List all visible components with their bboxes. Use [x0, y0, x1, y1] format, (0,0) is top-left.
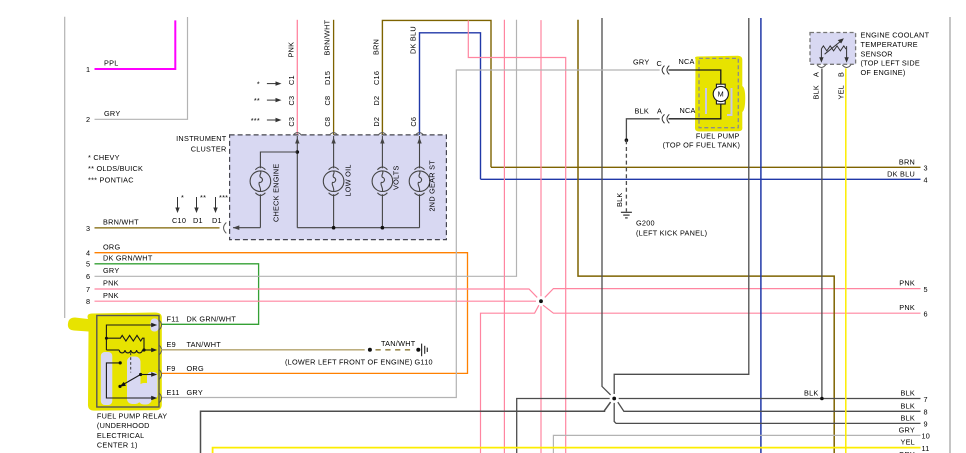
svg-text:BLK: BLK — [900, 402, 915, 411]
svg-text:6: 6 — [86, 272, 90, 281]
fuel pump dashed box — [699, 58, 738, 127]
svg-text:PNK: PNK — [899, 303, 915, 312]
svg-text:BLK: BLK — [804, 389, 819, 398]
connector (( at pump C — [662, 66, 669, 75]
svg-text:OF ENGINE): OF ENGINE) — [861, 68, 906, 77]
wire BLK pump to ground corner — [626, 119, 659, 140]
svg-text:INSTRUMENT: INSTRUMENT — [176, 134, 227, 143]
node PNK splice — [539, 299, 543, 303]
svg-text:2ND GEAR ST: 2ND GEAR ST — [428, 160, 437, 212]
node check-engine feed dot — [296, 150, 300, 154]
svg-text:5: 5 — [86, 260, 90, 269]
relay switch common stub — [106, 363, 155, 398]
label BLK A rotated — [812, 72, 821, 100]
svg-text:NCA: NCA — [680, 106, 696, 115]
relay pin chevrons — [159, 320, 162, 403]
wire PNK lead 5 right — [545, 278, 928, 297]
svg-text:(UNDERHOOD: (UNDERHOOD — [97, 421, 150, 430]
pin labels rotated C1 C3 C3 — [287, 75, 296, 126]
fuel pump highlight — [695, 56, 745, 132]
wire BRN lead 3 right — [491, 157, 928, 172]
svg-text:CLUSTER: CLUSTER — [191, 145, 227, 154]
svg-text:D2: D2 — [372, 96, 381, 106]
svg-text:LOW OIL: LOW OIL — [344, 164, 353, 196]
wire DK BLU vertical x761 — [760, 18, 762, 453]
svg-text:** OLDS/BUICK: ** OLDS/BUICK — [88, 164, 143, 173]
motor M fuel pump — [713, 84, 728, 104]
svg-text:G110: G110 — [415, 357, 433, 366]
node BLK splice above G200 — [625, 138, 629, 142]
wire YEL lead 11 across bottom — [213, 438, 930, 453]
svg-text:BRN/WHT: BRN/WHT — [103, 218, 139, 227]
svg-text:BLK: BLK — [615, 192, 624, 207]
svg-text:(LEFT KICK PANEL): (LEFT KICK PANEL) — [636, 229, 707, 238]
svg-text:8: 8 — [924, 408, 928, 417]
svg-text:D15: D15 — [323, 71, 332, 85]
lamp VOLTS — [372, 167, 393, 195]
svg-text:C1: C1 — [287, 75, 296, 85]
svg-text:BRN/WHT: BRN/WHT — [323, 19, 332, 55]
wire BLK lead 8 right with splice diagonal — [618, 402, 928, 417]
wire DK BLU lead 4 right — [481, 169, 928, 184]
svg-text:6: 6 — [924, 310, 928, 319]
wire PNK lead 7 — [86, 279, 537, 298]
wire BLK lead 7 right — [619, 389, 928, 404]
svg-text:C3: C3 — [287, 117, 296, 127]
label GRY C NCA at pump — [633, 57, 695, 68]
fuel pump inner brackets — [706, 88, 732, 115]
node TAN/WHT splice — [368, 348, 372, 352]
sensor connector chevrons — [817, 65, 851, 68]
svg-text:TAN/WHT: TAN/WHT — [187, 340, 222, 349]
svg-text:C3: C3 — [287, 96, 296, 106]
svg-text:ORG: ORG — [103, 242, 120, 251]
svg-text:*: * — [257, 80, 260, 89]
relay pin labels — [167, 315, 237, 398]
svg-text:C6: C6 — [409, 117, 418, 127]
svg-text:3: 3 — [86, 224, 90, 233]
svg-text:BRN: BRN — [899, 157, 915, 166]
wire PPL lead 1 — [86, 20, 175, 73]
svg-text:C8: C8 — [323, 117, 332, 127]
wire PNK from bottom x480 to splice — [481, 305, 539, 453]
svg-text:**: ** — [200, 193, 206, 202]
wire TAN/WHT dashed to G110 — [376, 349, 415, 351]
svg-text:2: 2 — [86, 115, 90, 124]
wire ORG lead 4 — [86, 242, 468, 373]
svg-text:D2: D2 — [372, 117, 381, 127]
wire BLK pump feed into pump — [669, 70, 721, 84]
svg-text:8: 8 — [86, 297, 90, 306]
svg-text:***: *** — [251, 116, 260, 125]
wire PNK lead 6 right — [543, 303, 928, 319]
svg-text:TEMPERATURE: TEMPERATURE — [861, 40, 918, 49]
svg-text:DK BLU: DK BLU — [887, 169, 915, 178]
lamp 2ND GEAR ST — [409, 167, 430, 195]
wire PNK vertical x504 — [503, 20, 505, 453]
svg-text:B: B — [837, 72, 846, 77]
label YEL B rotated — [837, 72, 846, 100]
wire BLK vertical x749 jog to splice — [614, 18, 749, 394]
wire BRN column C16/D2 vertical with top jog to BRN lead 3 — [382, 20, 491, 167]
wire relay arm to F9 — [141, 374, 156, 376]
wire BRN/WHT column D15/C8 vertical — [333, 20, 335, 135]
svg-text:7: 7 — [924, 395, 928, 404]
svg-text:A: A — [657, 106, 662, 115]
wire left frame vertical gray — [64, 17, 66, 318]
svg-text:*: * — [181, 193, 184, 202]
svg-text:C10: C10 — [172, 216, 186, 225]
pin labels rotated D15 C8 C8 — [323, 71, 332, 127]
relay lavender patches — [101, 319, 159, 406]
svg-text:PPL: PPL — [104, 59, 119, 68]
wire BLK bottom-left branch from splice — [201, 402, 611, 453]
lamp LOW OIL — [323, 167, 344, 195]
svg-text:BLK: BLK — [900, 414, 915, 423]
svg-text:4: 4 — [924, 176, 928, 185]
svg-text:PNK: PNK — [103, 291, 119, 300]
note CHEVY / OLDS/BUICK / PONTIAC — [88, 153, 143, 185]
svg-text:D1: D1 — [193, 216, 203, 225]
wire check engine lamp bottom lead — [259, 194, 261, 227]
node sensor BLK junction — [820, 397, 824, 401]
connector chevron at cluster left — [224, 223, 227, 234]
svg-text:GRY: GRY — [104, 109, 120, 118]
node relay arm pivot — [139, 373, 142, 376]
wire BRN/WHT lead 3 — [86, 218, 220, 233]
svg-text:(TOP OF FUEL TANK): (TOP OF FUEL TANK) — [663, 140, 740, 149]
wire BRN path down x578 across to x834 — [578, 20, 834, 453]
exit arrow to BRN/WHT — [233, 225, 240, 230]
svg-text:C8: C8 — [323, 96, 332, 106]
svg-text:11: 11 — [922, 444, 930, 453]
thermistor ECT — [821, 40, 846, 58]
svg-text:GRY: GRY — [103, 266, 119, 275]
svg-text:YEL: YEL — [900, 438, 915, 447]
svg-text:E11: E11 — [167, 388, 180, 397]
svg-text:M: M — [718, 90, 724, 99]
fuel pump relay box — [97, 316, 159, 408]
wire PNK top jog x468 to x565 — [468, 20, 565, 453]
label BLK A NCA at pump — [635, 106, 696, 116]
fuel pump relay highlight — [68, 313, 162, 411]
svg-text:FUEL PUMP: FUEL PUMP — [696, 132, 740, 141]
svg-text:GRY: GRY — [187, 388, 203, 397]
svg-text:F11: F11 — [167, 315, 180, 324]
svg-text:NCA: NCA — [679, 57, 695, 66]
wire BLK pump return — [669, 104, 721, 119]
wire PNK vertical x541 through splice — [540, 20, 542, 296]
svg-text:BLK: BLK — [812, 85, 821, 100]
svg-text:DK BLU: DK BLU — [409, 26, 418, 54]
svg-text:YEL: YEL — [837, 85, 846, 100]
svg-text:3: 3 — [924, 164, 928, 173]
node bus volts — [381, 226, 385, 230]
svg-text:E9: E9 — [167, 340, 176, 349]
wire BLK from bottom x516 to splice — [517, 399, 610, 453]
pin labels C10 D1 D1 with variant arrows — [172, 193, 228, 225]
svg-text:C16: C16 — [372, 71, 381, 85]
svg-text:1: 1 — [86, 65, 90, 74]
wire DK BLU column C6 vertical with top jog — [420, 33, 481, 180]
wire cluster bus left to exit — [233, 227, 260, 229]
svg-text:BLK: BLK — [900, 389, 915, 398]
svg-text:FUEL PUMP RELAY: FUEL PUMP RELAY — [97, 411, 168, 420]
svg-text:GRY: GRY — [633, 58, 649, 67]
wire YEL sensor B down — [845, 69, 847, 453]
wire BLK vertical x602 to splice — [602, 18, 611, 395]
svg-text:F9: F9 — [167, 364, 176, 373]
svg-text:ORG: ORG — [187, 364, 204, 373]
svg-text:(LOWER LEFT FRONT OF ENGINE): (LOWER LEFT FRONT OF ENGINE) — [285, 357, 413, 366]
sensor pin down arrows — [819, 57, 849, 63]
svg-text:A: A — [812, 72, 821, 77]
wire PNK lead 8 — [86, 291, 536, 306]
node bus low oil — [332, 226, 336, 230]
svg-text:CHECK ENGINE: CHECK ENGINE — [272, 163, 281, 222]
pin labels rotated C16 D2 D2 — [372, 71, 381, 127]
wire BLK sensor A down to lead 7 — [821, 69, 823, 399]
variant arrows to pins — [267, 84, 278, 120]
wire right frame vertical gray — [949, 17, 951, 453]
svg-text:C: C — [657, 59, 663, 68]
wire BLK dashed to G200 — [625, 140, 627, 211]
wire 2nd gear lamp lead — [419, 136, 421, 228]
svg-text:PNK: PNK — [103, 279, 119, 288]
node relay contact — [119, 361, 122, 364]
label G110 location — [285, 357, 433, 366]
svg-text:BRN: BRN — [372, 39, 381, 55]
svg-text:ELECTRICAL: ELECTRICAL — [97, 431, 145, 440]
svg-text:*** PONTIAC: *** PONTIAC — [88, 176, 134, 185]
ground G200 — [621, 212, 632, 218]
wire cluster bus right — [297, 227, 419, 229]
relay linkage dashed — [130, 353, 132, 373]
instrument cluster box — [176, 134, 446, 240]
svg-text:***: *** — [219, 193, 228, 202]
svg-text:(TOP LEFT SIDE: (TOP LEFT SIDE — [861, 59, 920, 68]
connector chevrons at cluster top — [293, 133, 424, 136]
wire GRY to fuel pump from E11 riser — [161, 70, 660, 398]
wire GRY lead 10 right — [553, 425, 930, 453]
connector (( at pump A — [662, 114, 669, 123]
svg-text:VOLTS: VOLTS — [392, 165, 401, 190]
node BLK splice — [612, 397, 616, 401]
label FUEL PUMP — [663, 132, 740, 150]
relay coil resistor parallel — [106, 325, 155, 353]
ECT sensor box — [810, 33, 856, 65]
svg-text:DK GRN/WHT: DK GRN/WHT — [103, 253, 153, 262]
svg-text:CENTER 1): CENTER 1) — [97, 441, 138, 450]
label FUEL PUMP RELAY — [97, 411, 168, 449]
node relay coil E9 — [142, 348, 145, 351]
relay pin arrows — [151, 323, 157, 400]
svg-text:PNK: PNK — [899, 278, 915, 287]
svg-text:* CHEVY: * CHEVY — [88, 153, 120, 162]
wire low oil lamp lead — [333, 136, 335, 228]
svg-text:PNK: PNK — [287, 42, 296, 58]
wire DK GRN/WHT lead 5 — [86, 253, 259, 324]
svg-text:**: ** — [254, 96, 260, 105]
wire GRY lead 6 — [86, 20, 517, 281]
svg-text:5: 5 — [924, 285, 928, 294]
svg-text:ENGINE COOLANT: ENGINE COOLANT — [861, 30, 930, 39]
wire volts lamp lead — [381, 136, 383, 228]
label ENGINE COOLANT TEMPERATURE SENSOR — [861, 30, 930, 77]
svg-text:TAN/WHT: TAN/WHT — [381, 339, 416, 348]
svg-text:DK GRN/WHT: DK GRN/WHT — [187, 315, 237, 324]
svg-text:SENSOR: SENSOR — [861, 49, 893, 58]
svg-text:D1: D1 — [212, 216, 222, 225]
svg-text:7: 7 — [86, 285, 90, 294]
wire GRY lead 2 — [86, 17, 188, 124]
svg-text:G200: G200 — [636, 218, 655, 227]
svg-text:GRY: GRY — [899, 425, 915, 434]
up arrows inside cluster top — [295, 138, 422, 144]
node relay resistor tap — [105, 337, 108, 340]
svg-text:10: 10 — [922, 432, 931, 441]
wire cluster C3 feed vertical — [296, 136, 298, 228]
svg-text:4: 4 — [86, 249, 90, 258]
svg-text:BLK: BLK — [635, 106, 650, 115]
wire PNK column C1/C3 vertical — [296, 20, 298, 135]
wire jog to check engine lamp — [260, 152, 297, 168]
relay switch arm — [123, 375, 141, 385]
wire TAN/WHT from E9 — [161, 349, 365, 351]
ground G110 — [416, 348, 420, 352]
svg-text:9: 9 — [924, 420, 928, 429]
wire BLK lead 9 right — [614, 403, 928, 429]
lamp CHECK ENGINE — [250, 167, 271, 195]
